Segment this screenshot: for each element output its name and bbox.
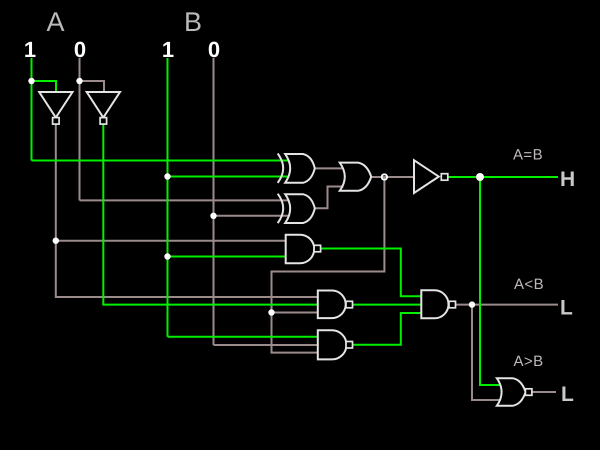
wire OR output to NOT gate [371, 176, 414, 178]
NAND gate N4 bubble [346, 342, 353, 349]
wire A1 branch to inverter U1 [32, 81, 57, 93]
wire OR output drop to NAND4 input3 [272, 177, 385, 353]
XOR gate X2 body [285, 194, 315, 223]
node A=B to NOR [476, 173, 484, 181]
wire XOR1 output to OR gate [315, 167, 344, 169]
svg-text:A: A [46, 7, 64, 37]
NAND gate N1 body [286, 235, 315, 264]
NAND gate N1 bubble [314, 245, 321, 252]
wire B1 to NAND4 input1 [168, 336, 318, 338]
OR gate O1 body [340, 163, 372, 191]
wire NOR output to L [532, 391, 557, 393]
wire B1 input vertical [167, 58, 169, 337]
node B1 to XOR1 [164, 173, 170, 179]
XOR gate X1 extra arc [278, 154, 284, 183]
node A-less-B to NOR [469, 301, 475, 307]
wire B0 input vertical [213, 58, 215, 345]
node A1 branch [28, 78, 34, 84]
wire A-equal-B drop to NOR input1 [480, 177, 501, 385]
wire A-less-B drop to NOR input2 [472, 305, 501, 400]
wire B1 to XOR1 input2 [168, 176, 290, 178]
wire XOR2 output elbow to OR gate input2 [315, 187, 344, 209]
NAND gate N3 bubble [449, 301, 456, 308]
svg-text:A>B: A>B [514, 353, 544, 370]
wire NOT output to H [448, 176, 558, 178]
wire B0 to NAND4 input2 [214, 344, 318, 346]
wire NAND3 output to L [456, 304, 559, 306]
XOR gate X1 body [285, 154, 315, 183]
wire A0 branch to inverter U2 [80, 81, 105, 93]
inverter U2 bubble [100, 118, 107, 125]
wire A0 to XOR2 input1 [80, 199, 290, 201]
wire inverter U1 output vertical [56, 124, 318, 297]
svg-text:1: 1 [24, 37, 36, 62]
svg-text:1: 1 [162, 37, 174, 62]
wire B1 to NAND1 input2 [168, 256, 286, 258]
wire inverter U2 output to NAND2 input2 [103, 124, 317, 305]
inverter U1 bubble [53, 118, 60, 125]
inverter U1 (A1) triangle [39, 92, 72, 118]
wire U1 out to NAND1 input1 [56, 240, 286, 242]
svg-text:L: L [561, 383, 574, 406]
NOT gate N5 triangle [414, 160, 439, 193]
wire NAND2 output to NAND3 input2 [353, 304, 422, 306]
wire node to NAND2 input3 [272, 312, 318, 314]
wire A0 input vertical [79, 58, 81, 200]
wire B0 to XOR2 input2 [214, 215, 290, 217]
wire A1 to XOR1 input1 [32, 160, 290, 162]
NOT gate N5 bubble [441, 174, 448, 181]
node B1 to NAND1 [164, 253, 170, 259]
node A0 branch [76, 78, 82, 84]
svg-text:H: H [560, 168, 575, 191]
svg-text:0: 0 [208, 37, 220, 62]
wire A1 input vertical [31, 58, 33, 161]
svg-text:L: L [560, 297, 573, 320]
node gray drop to NAND2 [268, 309, 274, 315]
inverter U2 (A0) triangle [87, 92, 120, 118]
svg-text:B: B [184, 7, 202, 37]
NAND gate N2 body [318, 291, 346, 319]
wire NAND4 output loop to NAND3 input3 [353, 313, 422, 345]
node B0 to XOR2 [210, 213, 216, 219]
NAND gate N2 bubble [346, 301, 353, 308]
node U1out to NAND1 [53, 238, 59, 244]
svg-text:A<B: A<B [514, 276, 544, 293]
NOR gate N6 bubble [525, 389, 532, 396]
svg-text:0: 0 [74, 37, 86, 62]
wire NAND1 output to NAND3 input1 [321, 249, 422, 297]
svg-text:A=B: A=B [513, 147, 543, 164]
node OR output hollow [382, 174, 387, 179]
NAND gate N3 body [421, 290, 448, 318]
NOR gate N6 body [497, 378, 526, 406]
XOR gate X2 extra arc [278, 194, 284, 223]
NAND gate N4 body [318, 330, 347, 359]
